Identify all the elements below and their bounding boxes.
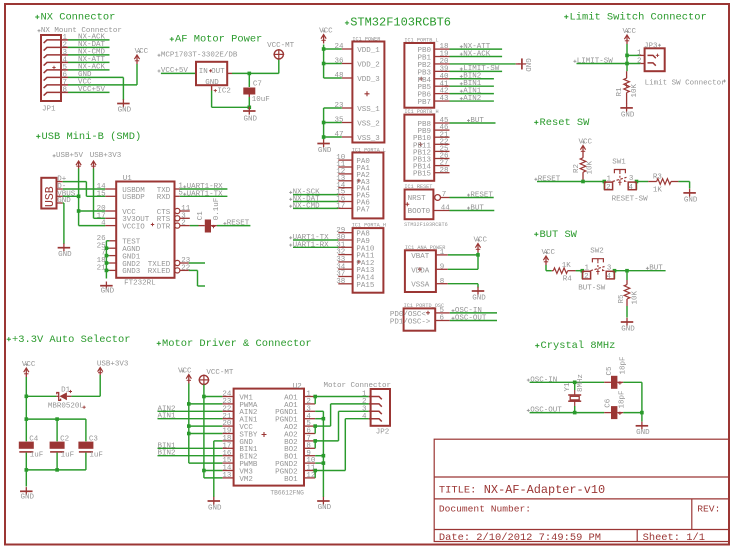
- svg-text:38: 38: [336, 278, 345, 286]
- svg-text:GND: GND: [684, 196, 698, 204]
- svg-text:R4: R4: [563, 276, 573, 284]
- svg-text:PB7: PB7: [417, 99, 431, 107]
- svg-text:FT232RL: FT232RL: [124, 280, 156, 288]
- svg-text:Y1: Y1: [564, 382, 572, 392]
- svg-text:13: 13: [222, 472, 232, 480]
- svg-text:VDD_3: VDD_3: [357, 76, 380, 84]
- svg-text:JP3: JP3: [644, 43, 658, 51]
- svg-text:VSS_1: VSS_1: [357, 106, 380, 114]
- svg-text:1uF: 1uF: [89, 452, 103, 460]
- svg-text:BUT: BUT: [470, 117, 484, 125]
- svg-text:C2: C2: [60, 436, 69, 444]
- svg-text:PA7: PA7: [356, 206, 370, 214]
- svg-text:VCC-MT: VCC-MT: [267, 42, 295, 50]
- svg-text:OUT: OUT: [211, 68, 225, 76]
- svg-text:USBDP: USBDP: [122, 194, 145, 202]
- svg-text:BO1: BO1: [284, 476, 298, 484]
- svg-text:10K: 10K: [632, 290, 640, 304]
- svg-text:R3: R3: [653, 173, 663, 181]
- svg-text:GND: GND: [58, 251, 72, 259]
- svg-text:+3.3V Auto Selector: +3.3V Auto Selector: [12, 334, 130, 346]
- svg-text:VDD_1: VDD_1: [357, 47, 380, 55]
- svg-text:TB6612FNG: TB6612FNG: [270, 490, 304, 497]
- svg-text:STM32F103RCBT6: STM32F103RCBT6: [404, 222, 448, 228]
- svg-text:GND: GND: [318, 504, 332, 512]
- svg-text:BIN2: BIN2: [158, 450, 176, 458]
- svg-text:R5: R5: [618, 294, 626, 304]
- svg-text:DTR: DTR: [157, 223, 171, 231]
- svg-text:VCC: VCC: [135, 48, 149, 56]
- svg-text:44: 44: [441, 205, 451, 213]
- svg-text:10uF: 10uF: [252, 96, 270, 104]
- svg-text:VCC+5V: VCC+5V: [78, 86, 106, 94]
- svg-text:BUT: BUT: [649, 265, 663, 273]
- svg-text:IC2: IC2: [217, 88, 231, 96]
- svg-text:JP1: JP1: [42, 106, 56, 114]
- svg-text:OSC-IN: OSC-IN: [530, 376, 557, 384]
- svg-text:RESET: RESET: [538, 176, 561, 184]
- svg-text:VCCIO: VCCIO: [122, 223, 145, 231]
- svg-text:1: 1: [440, 249, 445, 257]
- svg-text:8: 8: [440, 278, 445, 286]
- svg-text:10K: 10K: [587, 160, 595, 174]
- svg-text:1uF: 1uF: [30, 452, 44, 460]
- svg-text:10K: 10K: [631, 83, 639, 97]
- svg-text:17: 17: [336, 203, 345, 211]
- svg-text:MBR0520L: MBR0520L: [48, 403, 85, 411]
- svg-text:VCC: VCC: [178, 367, 192, 375]
- svg-text:47: 47: [334, 131, 343, 139]
- svg-text:24: 24: [334, 43, 344, 51]
- svg-text:USB: USB: [44, 186, 57, 207]
- svg-text:GND: GND: [636, 429, 650, 437]
- svg-text:R1: R1: [616, 87, 624, 97]
- svg-text:GND: GND: [621, 111, 635, 119]
- svg-text:1: 1: [637, 49, 642, 57]
- svg-text:GND: GND: [101, 288, 115, 296]
- svg-text:PB15: PB15: [413, 171, 432, 179]
- svg-text:18pF: 18pF: [620, 356, 628, 374]
- svg-text:12: 12: [306, 472, 315, 480]
- svg-text:Sheet: 1/1: Sheet: 1/1: [643, 532, 705, 544]
- svg-text:JP2: JP2: [376, 428, 390, 436]
- svg-text:GND: GND: [621, 326, 635, 334]
- svg-text:VDD_2: VDD_2: [357, 62, 380, 70]
- svg-text:BOOT0: BOOT0: [408, 208, 431, 216]
- svg-text:STM32F103RCBT6: STM32F103RCBT6: [350, 16, 451, 30]
- svg-text:Crystal 8MHz: Crystal 8MHz: [541, 340, 616, 352]
- svg-text:U2: U2: [293, 383, 302, 391]
- svg-text:4: 4: [101, 220, 106, 228]
- svg-text:Document Number:: Document Number:: [439, 504, 531, 515]
- svg-text:GND: GND: [208, 505, 222, 513]
- svg-text:1K: 1K: [653, 186, 663, 194]
- svg-text:8MHz: 8MHz: [577, 374, 585, 392]
- svg-text:Reset SW: Reset SW: [540, 117, 591, 129]
- svg-text:GND: GND: [318, 147, 332, 155]
- svg-text:18pF: 18pF: [619, 390, 627, 408]
- svg-text:1K: 1K: [562, 262, 572, 270]
- svg-text:35: 35: [334, 117, 344, 125]
- svg-text:BUT-SW: BUT-SW: [578, 285, 606, 293]
- svg-text:C5: C5: [606, 366, 614, 376]
- svg-text:7: 7: [442, 191, 447, 199]
- svg-text:NX-CMD: NX-CMD: [293, 202, 321, 210]
- svg-text:C1: C1: [197, 211, 205, 221]
- svg-text:2: 2: [637, 58, 642, 66]
- svg-text:3: 3: [607, 264, 612, 272]
- svg-text:23: 23: [334, 102, 344, 110]
- svg-text:USB+3V3: USB+3V3: [90, 152, 122, 160]
- svg-text:22: 22: [181, 264, 190, 272]
- svg-text:3: 3: [629, 175, 634, 183]
- svg-text:VBAT: VBAT: [411, 253, 430, 261]
- svg-text:GND: GND: [205, 79, 219, 87]
- svg-text:28: 28: [440, 167, 449, 175]
- svg-text:MCP1703T-3302E/DB: MCP1703T-3302E/DB: [161, 51, 238, 59]
- svg-text:NX Connector: NX Connector: [41, 12, 116, 24]
- svg-text:AIN1: AIN1: [158, 413, 177, 421]
- svg-text:1uF: 1uF: [61, 452, 75, 460]
- svg-text:VCC: VCC: [542, 249, 556, 257]
- svg-text:AF Motor Power: AF Motor Power: [175, 34, 262, 46]
- svg-text:36: 36: [334, 58, 344, 66]
- svg-text:UART1-RX: UART1-RX: [293, 241, 330, 249]
- svg-text:RESET: RESET: [470, 191, 493, 199]
- svg-text:43: 43: [440, 95, 450, 103]
- svg-text:NRST: NRST: [408, 195, 427, 203]
- svg-text:VCC-MT: VCC-MT: [206, 369, 234, 377]
- svg-text:OSC-OUT: OSC-OUT: [455, 315, 487, 323]
- svg-text:RESET-SW: RESET-SW: [612, 196, 649, 204]
- svg-text:SW2: SW2: [590, 248, 604, 256]
- svg-text:2: 2: [181, 220, 186, 228]
- svg-text:USB+3V3: USB+3V3: [97, 360, 129, 368]
- svg-text:VDDA: VDDA: [411, 267, 430, 275]
- svg-text:0.1uF: 0.1uF: [213, 198, 221, 221]
- svg-text:VCC: VCC: [22, 361, 36, 369]
- svg-text:48: 48: [334, 72, 343, 80]
- svg-text:SW1: SW1: [612, 158, 626, 166]
- svg-text:4: 4: [362, 413, 367, 421]
- svg-text:1: 1: [585, 265, 590, 273]
- svg-text:TITLE:: TITLE:: [439, 485, 476, 497]
- svg-text:BUT: BUT: [470, 204, 484, 212]
- svg-text:NX-ACK: NX-ACK: [463, 50, 491, 58]
- svg-text:VCC: VCC: [474, 236, 488, 244]
- svg-text:C7: C7: [253, 81, 262, 89]
- svg-text:GND: GND: [244, 115, 258, 123]
- svg-text:AIN2: AIN2: [463, 95, 481, 103]
- svg-text:USB Mini-B (SMD): USB Mini-B (SMD): [42, 131, 142, 143]
- svg-text:NX-AF-Adapter-v10: NX-AF-Adapter-v10: [484, 483, 605, 497]
- svg-text:4: 4: [607, 273, 612, 281]
- svg-text:2: 2: [606, 184, 611, 192]
- svg-text:Limit SW Connector: Limit SW Connector: [645, 79, 726, 87]
- svg-text:BUT SW: BUT SW: [540, 229, 578, 241]
- svg-text:2: 2: [584, 273, 589, 281]
- svg-text:GND3: GND3: [122, 268, 141, 276]
- svg-text:PD1/OSC->: PD1/OSC->: [390, 319, 431, 327]
- svg-text:GND: GND: [472, 295, 486, 303]
- svg-text:UART1-TX: UART1-TX: [187, 190, 224, 198]
- svg-text:GND: GND: [523, 58, 531, 72]
- svg-text:LIMIT-SW: LIMIT-SW: [577, 58, 614, 66]
- svg-text:VCC: VCC: [623, 28, 637, 36]
- svg-text:VM2: VM2: [239, 476, 253, 484]
- svg-text:USB+5V: USB+5V: [56, 152, 84, 160]
- svg-text:C6: C6: [604, 398, 612, 408]
- svg-text:D1: D1: [61, 386, 71, 394]
- svg-text:GND: GND: [21, 494, 35, 502]
- svg-text:9: 9: [440, 263, 445, 271]
- svg-text:C3: C3: [89, 436, 99, 444]
- svg-text:Date: 2/10/2012 7:49:59 PM: Date: 2/10/2012 7:49:59 PM: [439, 532, 601, 544]
- svg-text:VCC: VCC: [579, 138, 593, 146]
- svg-text:GND: GND: [118, 107, 132, 115]
- svg-text:1: 1: [607, 175, 612, 183]
- svg-text:Motor Driver & Connector: Motor Driver & Connector: [162, 338, 312, 350]
- svg-text:RXLED: RXLED: [148, 268, 171, 276]
- svg-text:4: 4: [629, 184, 634, 192]
- svg-text:IN: IN: [199, 68, 208, 76]
- svg-text:RESET: RESET: [227, 220, 250, 228]
- svg-text:OSC-OUT: OSC-OUT: [530, 407, 562, 415]
- svg-text:RXD: RXD: [157, 194, 171, 202]
- svg-text:Limit Switch Connector: Limit Switch Connector: [570, 11, 707, 23]
- svg-text:VCC: VCC: [319, 27, 333, 35]
- svg-text:VSS_3: VSS_3: [357, 135, 380, 143]
- svg-text:PA15: PA15: [356, 282, 375, 290]
- svg-text:15: 15: [97, 190, 107, 198]
- svg-text:VSSA: VSSA: [411, 282, 430, 290]
- svg-text:R2: R2: [573, 164, 581, 173]
- svg-text:VSS_2: VSS_2: [357, 121, 380, 129]
- svg-text:6: 6: [440, 315, 445, 323]
- svg-text:REV:: REV:: [697, 504, 720, 515]
- svg-text:C4: C4: [29, 436, 39, 444]
- svg-text:8: 8: [62, 87, 67, 95]
